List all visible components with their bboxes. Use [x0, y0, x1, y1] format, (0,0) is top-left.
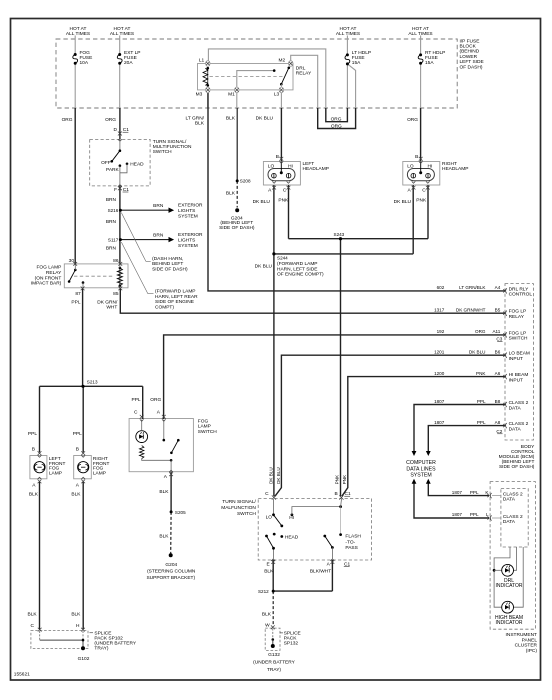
svg-text:PNK: PNK [342, 474, 347, 484]
svg-text:MULTIFUNCTION: MULTIFUNCTION [153, 144, 192, 150]
svg-text:S213: S213 [87, 379, 98, 384]
svg-text:PNK: PNK [278, 197, 289, 203]
svg-text:BLK: BLK [264, 569, 274, 575]
svg-text:HI: HI [289, 515, 294, 521]
svg-text:HOT AT: HOT AT [412, 26, 429, 32]
svg-text:PPL: PPL [71, 300, 80, 306]
svg-text:155621: 155621 [14, 671, 30, 677]
svg-text:B: B [334, 491, 337, 497]
svg-text:20A: 20A [124, 60, 133, 66]
svg-text:DATA: DATA [509, 426, 522, 432]
svg-text:S216: S216 [108, 208, 119, 213]
svg-text:HI BEAM: HI BEAM [509, 372, 529, 378]
svg-text:SYSTEM: SYSTEM [410, 473, 431, 479]
svg-text:C: C [422, 188, 426, 194]
svg-text:S244: S244 [277, 255, 288, 260]
svg-text:(BEHIND: (BEHIND [460, 49, 480, 55]
svg-text:ORG: ORG [150, 397, 161, 403]
svg-text:RELAY: RELAY [509, 314, 525, 320]
svg-text:SIDE OF DASH): SIDE OF DASH) [152, 267, 188, 273]
svg-text:M2: M2 [278, 58, 285, 64]
svg-text:SWITCH: SWITCH [237, 511, 256, 517]
svg-text:TURN SIGNAL/: TURN SIGNAL/ [222, 499, 256, 505]
svg-text:PPL: PPL [132, 397, 141, 403]
svg-text:S208: S208 [240, 178, 251, 183]
svg-text:DRL: DRL [296, 66, 306, 72]
svg-text:FLASH: FLASH [345, 534, 361, 540]
svg-text:LO: LO [268, 164, 275, 170]
svg-text:LT GRN/BLK: LT GRN/BLK [459, 285, 486, 290]
svg-text:CLASS 2: CLASS 2 [509, 421, 529, 427]
svg-text:HOT AT: HOT AT [70, 26, 87, 32]
svg-text:A4: A4 [495, 285, 501, 290]
svg-text:S243: S243 [334, 232, 345, 237]
svg-text:INDICATOR: INDICATOR [495, 583, 522, 589]
svg-text:DATA: DATA [509, 405, 522, 411]
svg-text:M3: M3 [196, 91, 203, 97]
svg-text:CONTROL: CONTROL [509, 292, 533, 298]
svg-text:IMPACT BAR): IMPACT BAR) [31, 281, 62, 287]
svg-text:TURN SIGNAL/: TURN SIGNAL/ [153, 139, 187, 145]
svg-text:HEAD: HEAD [285, 534, 299, 540]
svg-text:DRL RLY: DRL RLY [509, 286, 530, 292]
svg-text:C: C [31, 623, 35, 629]
svg-text:DATA LINES: DATA LINES [406, 466, 436, 472]
svg-text:MALFUNCTION: MALFUNCTION [221, 505, 256, 511]
svg-text:(STEERING COLUMN: (STEERING COLUMN [147, 569, 196, 575]
svg-text:DK BLU: DK BLU [268, 467, 273, 484]
svg-text:602: 602 [437, 285, 445, 290]
svg-text:C: C [134, 410, 138, 416]
svg-text:(UNDER BATTERY: (UNDER BATTERY [253, 660, 295, 666]
svg-text:(IPC): (IPC) [526, 648, 538, 654]
svg-text:B: B [276, 154, 279, 160]
svg-text:15A: 15A [352, 60, 361, 66]
svg-text:1807: 1807 [452, 490, 463, 495]
svg-text:OF ENGINE COMPT): OF ENGINE COMPT) [277, 272, 324, 278]
svg-text:PANEL: PANEL [522, 637, 538, 643]
svg-text:PPL: PPL [470, 512, 479, 517]
svg-text:INPUT: INPUT [509, 356, 523, 362]
svg-text:SUPPORT BRACKET): SUPPORT BRACKET) [146, 575, 195, 581]
svg-text:H: H [76, 623, 80, 629]
svg-text:(ON FRONT: (ON FRONT [35, 275, 62, 281]
svg-text:BLK: BLK [29, 491, 39, 497]
svg-text:30: 30 [69, 258, 75, 264]
svg-text:ORG: ORG [331, 123, 342, 129]
svg-text:(FORWARD LAMP: (FORWARD LAMP [155, 289, 196, 295]
svg-text:PPL: PPL [477, 399, 486, 404]
svg-text:BRN: BRN [106, 246, 117, 252]
svg-text:HOT AT: HOT AT [114, 26, 131, 32]
svg-text:(FORWARD LAMP: (FORWARD LAMP [277, 261, 318, 267]
svg-text:1317: 1317 [434, 308, 445, 313]
svg-text:BRN: BRN [153, 233, 164, 239]
svg-text:LAMP: LAMP [198, 424, 211, 430]
svg-text:HARN, LEFT SIDE: HARN, LEFT SIDE [277, 266, 317, 272]
svg-text:ORG: ORG [62, 117, 73, 123]
svg-text:INDICATOR: INDICATOR [495, 620, 522, 626]
svg-text:C2: C2 [496, 429, 502, 434]
svg-text:PPL: PPL [477, 420, 486, 425]
svg-text:EXTERIOR: EXTERIOR [178, 232, 203, 238]
svg-text:SIDE OF DASH): SIDE OF DASH) [499, 464, 535, 470]
svg-text:DK GRN/: DK GRN/ [97, 300, 118, 306]
svg-text:PPL: PPL [73, 431, 82, 437]
svg-text:SP132: SP132 [284, 641, 299, 647]
svg-text:A8: A8 [495, 420, 501, 425]
svg-text:G102: G102 [78, 656, 90, 662]
svg-text:DK BLU: DK BLU [469, 350, 486, 355]
svg-text:BLK: BLK [226, 115, 236, 121]
svg-text:BRN: BRN [106, 197, 117, 203]
svg-text:COMPUTER: COMPUTER [406, 460, 436, 466]
svg-text:LIGHTS: LIGHTS [178, 237, 195, 243]
svg-text:DK BLU: DK BLU [253, 199, 271, 205]
svg-text:B: B [415, 154, 418, 160]
svg-text:PNK: PNK [335, 474, 340, 484]
svg-text:PPL: PPL [28, 431, 37, 437]
svg-text:CLASS 2: CLASS 2 [503, 492, 523, 498]
svg-text:SWITCH: SWITCH [153, 149, 172, 155]
svg-text:LEFT: LEFT [303, 161, 315, 167]
svg-text:B: B [76, 447, 79, 453]
svg-text:HOT AT: HOT AT [340, 26, 357, 32]
svg-text:ALL TIMES: ALL TIMES [66, 31, 90, 37]
svg-text:INPUT: INPUT [509, 377, 523, 383]
svg-text:DATA: DATA [503, 497, 516, 503]
svg-text:15A: 15A [425, 60, 434, 66]
svg-text:SYSTEM: SYSTEM [178, 243, 198, 249]
svg-text:C3: C3 [496, 337, 502, 342]
svg-text:1200: 1200 [434, 371, 445, 376]
svg-text:ORG: ORG [407, 117, 418, 123]
svg-text:ORG: ORG [475, 329, 486, 334]
svg-text:1807: 1807 [452, 512, 463, 517]
svg-text:L1: L1 [199, 58, 205, 64]
svg-text:1807: 1807 [434, 420, 445, 425]
svg-text:CLASS 2: CLASS 2 [503, 514, 523, 520]
svg-text:FOG: FOG [198, 419, 209, 425]
svg-text:S117: S117 [108, 237, 119, 242]
svg-text:B5: B5 [495, 308, 501, 313]
svg-text:86: 86 [113, 258, 119, 264]
svg-text:RELAY: RELAY [46, 270, 62, 276]
svg-text:RELAY: RELAY [296, 71, 312, 77]
svg-text:ORG: ORG [331, 117, 342, 123]
svg-text:G132: G132 [268, 652, 280, 658]
svg-text:DK GRN/WHT: DK GRN/WHT [456, 308, 486, 313]
svg-text:BRN: BRN [153, 203, 164, 209]
svg-text:PNK: PNK [416, 197, 427, 203]
svg-text:SIDE OF DASH): SIDE OF DASH) [219, 225, 255, 231]
svg-text:FOG LP: FOG LP [509, 309, 527, 315]
svg-text:LAMP: LAMP [93, 470, 106, 476]
svg-text:SIDE OF ENGINE: SIDE OF ENGINE [155, 299, 194, 305]
svg-text:SYSTEM: SYSTEM [178, 213, 198, 219]
svg-text:FOG LP: FOG LP [509, 330, 527, 336]
svg-text:OFF: OFF [101, 160, 111, 166]
svg-text:B6: B6 [495, 350, 501, 355]
svg-text:PASS: PASS [345, 545, 357, 551]
svg-text:PARK: PARK [106, 167, 120, 173]
svg-text:COMPT): COMPT) [155, 304, 174, 310]
svg-text:TRAY): TRAY) [94, 646, 108, 652]
svg-text:F: F [114, 187, 117, 193]
svg-text:HEAD: HEAD [130, 162, 144, 168]
svg-text:DK BLU: DK BLU [276, 467, 281, 484]
svg-text:A11: A11 [492, 329, 500, 334]
svg-text:LO: LO [407, 164, 414, 170]
svg-text:LO BEAM: LO BEAM [509, 351, 530, 357]
svg-text:DATA: DATA [503, 519, 516, 525]
svg-text:DK BLU: DK BLU [394, 199, 412, 205]
svg-text:87: 87 [75, 291, 81, 297]
svg-text:BLK: BLK [159, 489, 169, 495]
svg-text:BLK: BLK [159, 534, 169, 540]
svg-text:OF DASH): OF DASH) [460, 64, 483, 70]
svg-text:1807: 1807 [434, 399, 445, 404]
svg-text:L: L [486, 512, 489, 517]
svg-text:D: D [114, 127, 118, 133]
svg-text:BRN: BRN [106, 219, 117, 225]
svg-text:ALL TIMES: ALL TIMES [408, 31, 432, 37]
svg-text:BLK: BLK [226, 190, 236, 196]
svg-text:SWITCH: SWITCH [509, 336, 528, 342]
svg-text:BLK: BLK [28, 611, 38, 617]
svg-text:LEFT SIDE: LEFT SIDE [460, 59, 484, 65]
svg-text:EXTERIOR: EXTERIOR [178, 203, 203, 209]
svg-text:HI: HI [427, 164, 432, 170]
svg-text:G204: G204 [165, 562, 177, 568]
svg-text:BLK: BLK [71, 611, 81, 617]
svg-text:BEHIND LEFT: BEHIND LEFT [152, 261, 183, 267]
svg-text:(DASH HARN,: (DASH HARN, [152, 256, 183, 262]
svg-text:A6: A6 [495, 371, 501, 376]
svg-text:TRAY): TRAY) [267, 667, 281, 673]
svg-text:BLOCK: BLOCK [460, 44, 477, 50]
svg-text:HARN, LEFT REAR: HARN, LEFT REAR [155, 294, 198, 300]
svg-text:BLK: BLK [71, 491, 81, 497]
svg-text:B: B [32, 447, 35, 453]
svg-text:85: 85 [113, 291, 119, 297]
svg-text:DK BLU: DK BLU [256, 115, 274, 121]
svg-text:L3: L3 [274, 91, 280, 97]
svg-text:1201: 1201 [434, 350, 445, 355]
svg-text:LIGHTS: LIGHTS [178, 208, 195, 214]
svg-text:DK BLU: DK BLU [255, 264, 273, 270]
svg-text:I/P FUSE: I/P FUSE [460, 38, 480, 44]
svg-text:BLK: BLK [195, 121, 205, 127]
svg-text:-TO-: -TO- [345, 539, 355, 545]
svg-text:PNK: PNK [476, 371, 486, 376]
svg-text:HEADLAMP: HEADLAMP [303, 166, 329, 172]
svg-text:ALL TIMES: ALL TIMES [336, 31, 360, 37]
svg-text:192: 192 [437, 329, 445, 334]
svg-text:ALL TIMES: ALL TIMES [110, 31, 134, 37]
svg-text:LOWER: LOWER [460, 54, 478, 60]
svg-text:HI: HI [288, 164, 293, 170]
svg-text:INSTRUMENT: INSTRUMENT [506, 632, 538, 638]
svg-text:M1: M1 [228, 91, 235, 97]
svg-text:BLK/WHT: BLK/WHT [310, 569, 331, 575]
svg-text:E: E [266, 561, 269, 567]
svg-text:LAMP: LAMP [49, 470, 62, 476]
svg-text:LO: LO [266, 515, 273, 521]
svg-text:C: C [265, 491, 269, 497]
svg-text:RIGHT: RIGHT [442, 161, 457, 167]
svg-text:CLASS 2: CLASS 2 [509, 400, 529, 406]
svg-text:FOG LAMP: FOG LAMP [37, 265, 62, 271]
svg-text:B8: B8 [495, 399, 501, 404]
svg-text:LT GRN/: LT GRN/ [186, 115, 205, 121]
svg-text:S205: S205 [175, 510, 186, 515]
svg-text:W: W [265, 622, 270, 628]
svg-text:HEADLAMP: HEADLAMP [442, 166, 468, 172]
svg-text:C: C [283, 188, 287, 194]
svg-text:10A: 10A [80, 60, 89, 66]
svg-text:PPL: PPL [470, 490, 479, 495]
svg-text:S212: S212 [258, 589, 269, 594]
svg-text:BLK: BLK [262, 611, 272, 617]
svg-text:WHT: WHT [106, 305, 117, 311]
svg-text:CLUSTER: CLUSTER [515, 643, 538, 649]
svg-text:SWITCH: SWITCH [198, 429, 217, 435]
svg-text:ORG: ORG [105, 117, 116, 123]
